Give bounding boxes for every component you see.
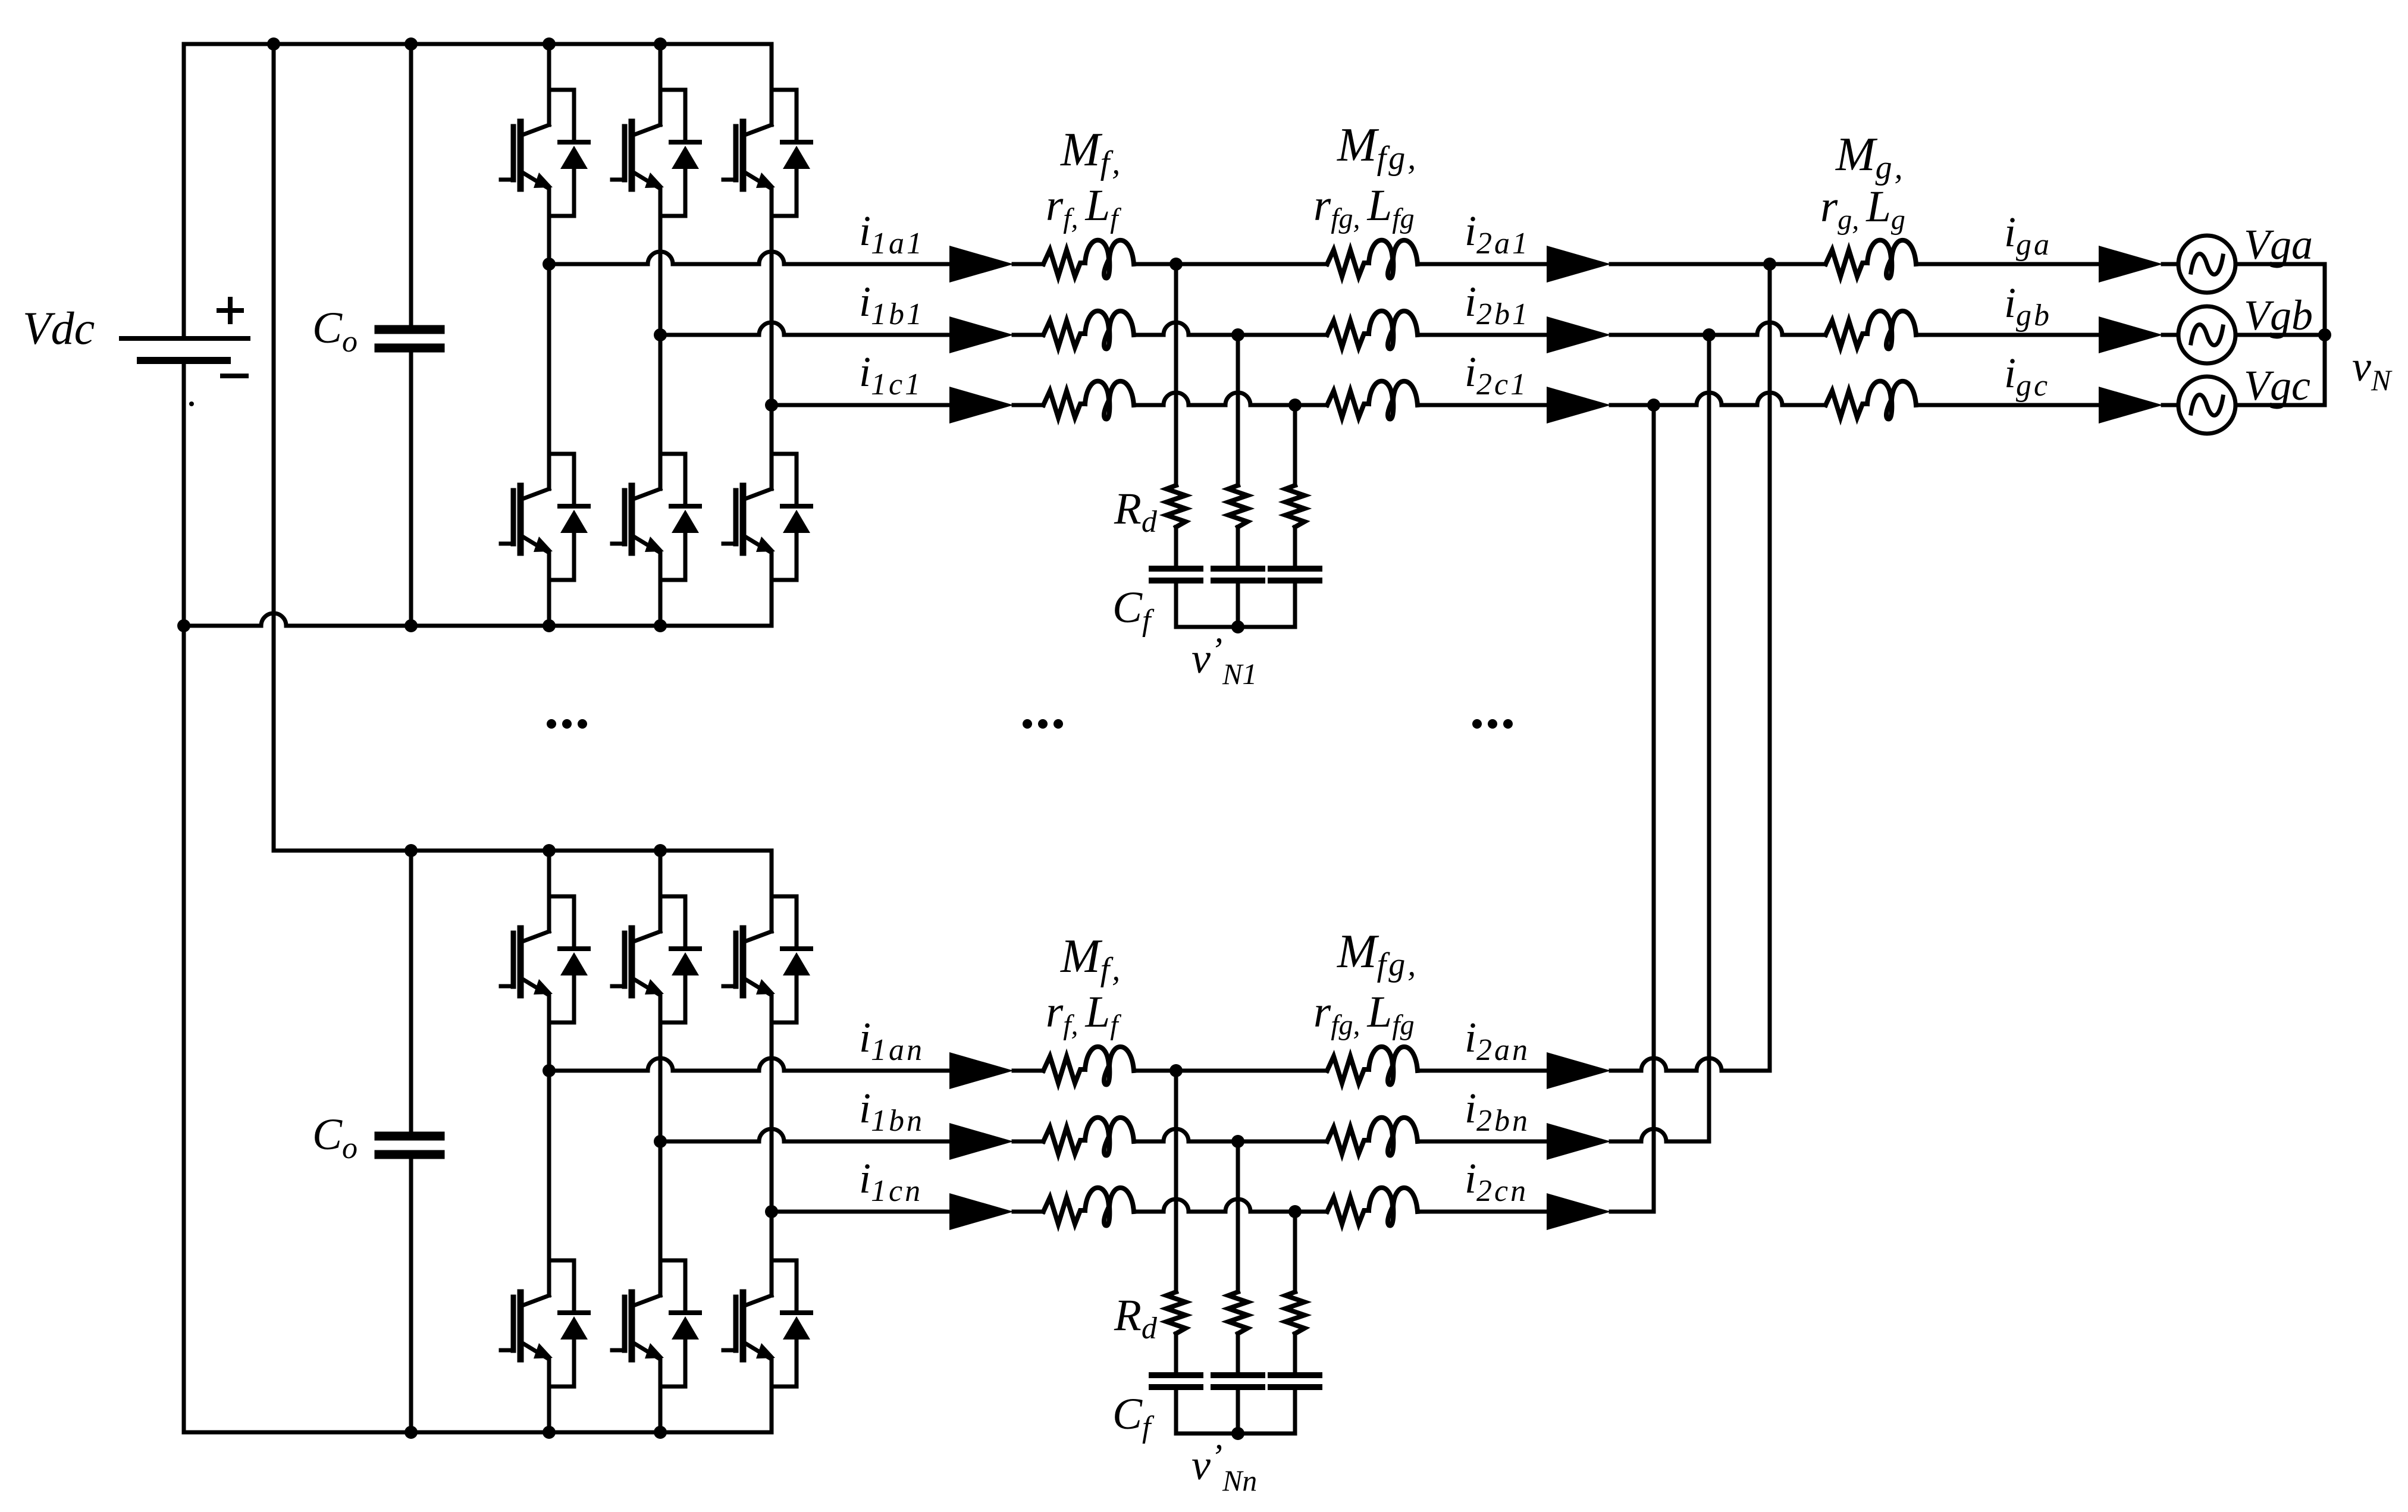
wire i2a1 to common node xyxy=(1611,262,1770,266)
wire phase b grid-side module n xyxy=(1418,1140,1547,1144)
node bottom rail to Co module n xyxy=(405,1426,418,1439)
node phase a output module 1 xyxy=(543,258,556,271)
node bottom rail to Co module 1 xyxy=(405,619,418,632)
arrow current iga xyxy=(2099,246,2163,283)
transistor IGBT lower leg a module 1 with antiparallel diode xyxy=(501,452,588,580)
svg-text:Vdc: Vdc xyxy=(23,302,95,354)
resistor Rd / capacitor Cf phase b module n xyxy=(1214,1292,1262,1433)
transistor IGBT lower leg c module 1 with antiparallel diode xyxy=(723,452,811,580)
node phase a Rd branch module n xyxy=(1169,1064,1183,1077)
wire phase a filter node module 1 xyxy=(1134,262,1327,266)
wire phase c inverter output module 1 xyxy=(772,403,949,407)
node phase c Rd branch module 1 xyxy=(1288,399,1302,412)
wire phase c filter node module n xyxy=(1134,1199,1327,1212)
node phase a common coupling xyxy=(1763,258,1776,271)
wire phase a to grid filter xyxy=(1770,262,1826,266)
wire source Vgb to neutral bus xyxy=(2235,333,2325,337)
wire source Vgc to neutral bus xyxy=(2235,403,2325,407)
node top rail to leg b module 1 xyxy=(654,37,667,51)
wire leg b midpoint module 1 xyxy=(659,216,663,452)
wire phase b inverter output module n xyxy=(660,1129,949,1141)
wire leg c collector feed module n xyxy=(770,851,774,895)
node top rail to leg b module n xyxy=(654,844,667,857)
resistor rf / inductor Lf phase b module n xyxy=(1043,1118,1134,1156)
transistor IGBT upper leg a module 1 with antiparallel diode xyxy=(501,88,588,216)
transistor IGBT upper leg c module n with antiparallel diode xyxy=(723,895,811,1022)
wire phase b to grid filter (hop) xyxy=(1709,322,1826,335)
transistor IGBT upper leg b module 1 with antiparallel diode xyxy=(612,88,700,216)
wire leg c emitter to negative rail module 1 xyxy=(770,580,774,626)
wire negative DC rail module n xyxy=(184,1431,772,1435)
wire second DC bus to module n xyxy=(272,44,276,851)
wire neutral bus v'N module 1 xyxy=(1176,625,1295,629)
battery Vdc negative terminal wire xyxy=(182,364,186,1432)
resistor rf / inductor Lf phase a module n xyxy=(1043,1047,1134,1085)
wire negative DC rail module 1 (hop over second DC bus) xyxy=(184,613,772,626)
wire phase c to filter module n xyxy=(1014,1210,1043,1214)
resistor rf / inductor Lf phase a module 1 xyxy=(1043,240,1134,278)
transistor IGBT lower leg a module n with antiparallel diode xyxy=(501,1259,588,1386)
wire phase a grid-side module n xyxy=(1418,1069,1547,1073)
wire leg a collector feed module 1 xyxy=(547,44,551,88)
node bottom rail to leg b module n xyxy=(654,1426,667,1439)
arrow current i2b module n xyxy=(1547,1123,1611,1160)
wire Rd branch a module n xyxy=(1174,1071,1178,1292)
node neutral bus module 1 xyxy=(1231,620,1244,633)
arrow current i2a module n xyxy=(1547,1052,1611,1089)
wire phase b inverter output module 1 xyxy=(660,322,949,335)
wire phase b to filter module n xyxy=(1014,1140,1043,1144)
wire phase b to filter module 1 xyxy=(1014,333,1043,337)
node top rail to leg a module 1 xyxy=(543,37,556,51)
arrow current i1b module n xyxy=(949,1123,1014,1160)
wire neutral bus v'N module n xyxy=(1176,1432,1295,1436)
wire phase a inverter output module 1 xyxy=(549,252,949,264)
node phase b Rd branch module 1 xyxy=(1231,328,1244,341)
transistor IGBT upper leg b module n with antiparallel diode xyxy=(612,895,700,1022)
wire i2an to vertical xyxy=(1611,1058,1770,1071)
resistor rf / inductor Lf phase c module 1 xyxy=(1043,381,1134,419)
arrow current igb xyxy=(2099,316,2163,353)
wire Rd branch a module 1 xyxy=(1174,264,1178,485)
wire phase b filter node module n xyxy=(1134,1129,1327,1141)
source Vgc AC xyxy=(2178,377,2235,434)
wire leg a emitter to negative rail module n xyxy=(547,1386,551,1432)
wire phase a inverter output module n xyxy=(549,1058,949,1071)
resistor rfg / inductor Lfg phase a module n xyxy=(1327,1047,1418,1085)
ellipsis between modules left xyxy=(547,719,587,729)
wire phase a to source xyxy=(2163,262,2178,266)
wire positive DC rail module n xyxy=(274,849,772,853)
arrow current i1a module 1 xyxy=(949,246,1014,283)
wire i2b1 to common node xyxy=(1611,333,1709,337)
label - battery negative xyxy=(222,374,246,378)
node top rail to Co module 1 xyxy=(405,37,418,51)
resistor Rd / capacitor Cf phase c module 1 xyxy=(1271,485,1319,627)
wire phase c to grid filter (hops) xyxy=(1654,393,1826,405)
wire phase a to grid arrow xyxy=(1916,262,2099,266)
arrow current i1c module 1 xyxy=(949,387,1014,424)
node bottom rail to leg a module n xyxy=(543,1426,556,1439)
wire leg b midpoint module n xyxy=(659,1022,663,1259)
node phase b output module n xyxy=(654,1135,667,1148)
node top rail to leg a module n xyxy=(543,844,556,857)
node phase b common coupling xyxy=(1702,328,1716,341)
wire positive DC rail module 1 xyxy=(184,42,772,46)
wire phase a to filter module n xyxy=(1014,1069,1043,1073)
wire grid neutral bus vN xyxy=(2323,264,2327,405)
capacitor Co module 1 xyxy=(379,44,440,626)
node phase c common coupling xyxy=(1647,399,1660,412)
resistor rfg / inductor Lfg phase c module 1 xyxy=(1327,381,1418,419)
resistor rf / inductor Lf phase c module n xyxy=(1043,1188,1134,1226)
transistor IGBT lower leg b module 1 with antiparallel diode xyxy=(612,452,700,580)
arrow current i1b module 1 xyxy=(949,316,1014,353)
resistor rg / inductor Lg phase a xyxy=(1826,240,1916,278)
node bottom rail to leg a module 1 xyxy=(543,619,556,632)
node neutral bus module n xyxy=(1231,1427,1244,1440)
svg-text:Vgb: Vgb xyxy=(2244,291,2313,339)
wire phase c grid-side module 1 xyxy=(1418,403,1547,407)
wire leg b emitter to negative rail module n xyxy=(659,1386,663,1432)
wire leg a midpoint module 1 xyxy=(547,216,551,452)
resistor Rd / capacitor Cf phase a module 1 xyxy=(1152,485,1200,627)
node bottom rail to leg b module 1 xyxy=(654,619,667,632)
wire Rd branch c module n xyxy=(1293,1212,1297,1292)
resistor rfg / inductor Lfg phase b module 1 xyxy=(1327,311,1418,349)
wire phase a paralleling vertical xyxy=(1768,264,1772,1071)
wire phase c grid-side module n xyxy=(1418,1210,1547,1214)
wire source Vga to neutral bus xyxy=(2235,262,2325,266)
node phase a Rd branch module 1 xyxy=(1169,258,1183,271)
transistor IGBT lower leg c module n with antiparallel diode xyxy=(723,1259,811,1386)
label + battery positive xyxy=(219,299,242,322)
node negative rail / battery junction module 1 xyxy=(177,619,190,632)
resistor rg / inductor Lg phase b xyxy=(1826,311,1916,349)
wire phase b to grid arrow xyxy=(1916,333,2099,337)
battery Vdc positive terminal wire xyxy=(182,44,186,338)
wire phase b to source xyxy=(2163,333,2178,337)
resistor rfg / inductor Lfg phase c module n xyxy=(1327,1188,1418,1226)
resistor rf / inductor Lf phase b module 1 xyxy=(1043,311,1134,349)
resistor Rd / capacitor Cf phase b module 1 xyxy=(1214,485,1262,627)
stray dot artifact xyxy=(189,401,194,406)
arrow current i2b module 1 xyxy=(1547,316,1611,353)
wire phase c to filter module 1 xyxy=(1014,403,1043,407)
wire leg a midpoint module n xyxy=(547,1022,551,1259)
wire phase c filter node module 1 xyxy=(1134,393,1327,405)
ellipsis between modules middle xyxy=(1023,719,1063,729)
wire leg b collector feed module n xyxy=(659,851,663,895)
node phase c output module 1 xyxy=(765,399,778,412)
transistor IGBT upper leg c module 1 with antiparallel diode xyxy=(723,88,811,216)
ellipsis between modules right xyxy=(1472,719,1513,729)
source Vgb AC xyxy=(2178,306,2235,363)
node grid neutral xyxy=(2318,328,2331,341)
wire i2cn to vertical xyxy=(1611,1210,1654,1214)
wire leg a emitter to negative rail module 1 xyxy=(547,580,551,626)
battery Vdc symbol xyxy=(121,338,248,360)
wire phase c inverter output module n xyxy=(772,1210,949,1214)
wire leg c collector feed module 1 xyxy=(770,44,774,88)
wire leg b emitter to negative rail module 1 xyxy=(659,580,663,626)
arrow current i1a module n xyxy=(949,1052,1014,1089)
arrow current i2c module 1 xyxy=(1547,387,1611,424)
resistor Rd / capacitor Cf phase a module n xyxy=(1152,1292,1200,1433)
node top rail to Co module n xyxy=(405,844,418,857)
wire leg c midpoint module 1 xyxy=(770,216,774,452)
wire leg c emitter to negative rail module n xyxy=(770,1386,774,1432)
wire phase a grid-side module 1 xyxy=(1418,262,1547,266)
node phase c Rd branch module n xyxy=(1288,1205,1302,1218)
node phase b Rd branch module n xyxy=(1231,1135,1244,1148)
resistor rfg / inductor Lfg phase a module 1 xyxy=(1327,240,1418,278)
node positive rail / bus junction module 1 xyxy=(267,37,280,51)
wire leg a collector feed module n xyxy=(547,851,551,895)
wire Rd branch b module 1 xyxy=(1236,335,1240,485)
arrow current i1c module n xyxy=(949,1193,1014,1230)
node phase a output module n xyxy=(543,1064,556,1077)
wire phase c to source xyxy=(2163,403,2178,407)
wire phase a to filter module 1 xyxy=(1014,262,1043,266)
wire phase b paralleling vertical xyxy=(1707,335,1711,1141)
wire phase c paralleling vertical xyxy=(1652,405,1656,1212)
arrow current i2a module 1 xyxy=(1547,246,1611,283)
source Vga AC xyxy=(2178,236,2235,293)
wire i2c1 to common node xyxy=(1611,403,1654,407)
wire phase c to grid arrow xyxy=(1916,403,2099,407)
svg-text:Vga: Vga xyxy=(2244,221,2313,268)
capacitor Co module n xyxy=(379,851,440,1432)
node phase c output module n xyxy=(765,1205,778,1218)
wire phase b grid-side module 1 xyxy=(1418,333,1547,337)
wire leg c midpoint module n xyxy=(770,1022,774,1259)
transistor IGBT lower leg b module n with antiparallel diode xyxy=(612,1259,700,1386)
wire phase a filter node module n xyxy=(1134,1069,1327,1073)
arrow current i2c module n xyxy=(1547,1193,1611,1230)
arrow current igc xyxy=(2099,387,2163,424)
wire Rd branch c module 1 xyxy=(1293,405,1297,485)
resistor rg / inductor Lg phase c xyxy=(1826,381,1916,419)
wire phase b filter node module 1 xyxy=(1134,322,1327,335)
wire i2bn to vertical xyxy=(1611,1129,1709,1141)
wire Rd branch b module n xyxy=(1236,1141,1240,1292)
resistor Rd / capacitor Cf phase c module n xyxy=(1271,1292,1319,1433)
wire leg b collector feed module 1 xyxy=(659,44,663,88)
svg-text:Vgc: Vgc xyxy=(2244,362,2310,409)
resistor rfg / inductor Lfg phase b module n xyxy=(1327,1118,1418,1156)
transistor IGBT upper leg a module n with antiparallel diode xyxy=(501,895,588,1022)
node phase b output module 1 xyxy=(654,328,667,341)
